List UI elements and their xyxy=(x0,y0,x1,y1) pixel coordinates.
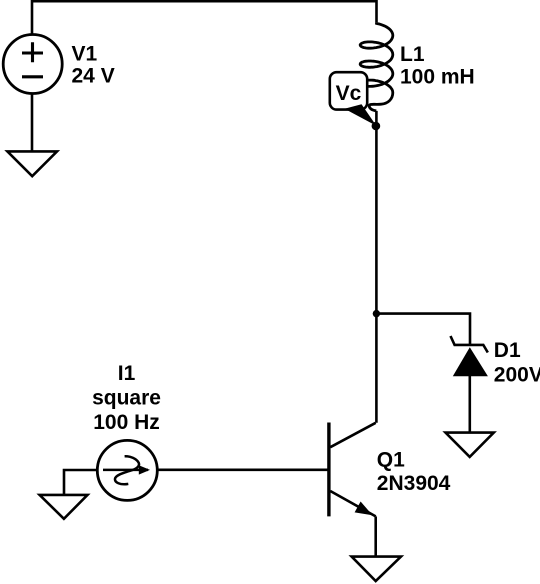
D1 anode triangle xyxy=(453,347,488,376)
wire L1 to node A xyxy=(375,111,378,314)
svg-text:200V: 200V xyxy=(494,363,540,386)
probe Vc pointer tail xyxy=(345,104,377,126)
label L1 value xyxy=(400,43,475,88)
svg-text:square: square xyxy=(92,387,161,410)
wire V1 to ground xyxy=(31,94,34,151)
wire node A to Q1 collector xyxy=(375,314,378,423)
I1 arrow shaft xyxy=(103,469,148,472)
Q1 emitter arrow xyxy=(355,502,373,516)
svg-text:2N3904: 2N3904 xyxy=(377,472,451,495)
ground (Q1 emitter) xyxy=(352,557,401,581)
transistor Q1 xyxy=(329,423,376,517)
wire top rail V1 to L1 xyxy=(32,1,377,34)
svg-text:Vc: Vc xyxy=(336,82,362,105)
I1 arrow head xyxy=(139,465,150,474)
label V1 value xyxy=(72,43,115,88)
wire I1 to Q1 base xyxy=(158,468,329,471)
label I1 value xyxy=(92,362,161,434)
Q1 emitter stroke xyxy=(330,491,375,516)
svg-text:Q1: Q1 xyxy=(377,449,405,472)
ground (D1) xyxy=(446,433,494,457)
I1 waveform squiggle xyxy=(115,456,139,484)
label D1 value xyxy=(494,339,540,386)
svg-text:24 V: 24 V xyxy=(72,65,115,88)
wire D1 to ground xyxy=(468,374,471,433)
probe Vc attachment dot xyxy=(372,122,381,131)
svg-text:I1: I1 xyxy=(118,362,136,385)
inductor L1 xyxy=(360,22,393,111)
current source I1 xyxy=(97,440,157,500)
label Q1 part number xyxy=(377,449,451,496)
ground (I1) xyxy=(40,495,88,519)
Q1 base bar xyxy=(327,423,330,517)
D1 cathode bar (zener) xyxy=(451,336,488,353)
svg-text:D1: D1 xyxy=(494,339,521,362)
wire I1 to ground xyxy=(64,470,97,495)
svg-text:100 mH: 100 mH xyxy=(400,65,475,88)
Q1 collector stroke xyxy=(330,423,375,447)
node A junction dot xyxy=(373,310,380,317)
ground (V1) xyxy=(7,151,57,176)
probe Vc callout box xyxy=(330,72,377,126)
svg-text:L1: L1 xyxy=(400,43,425,66)
svg-text:V1: V1 xyxy=(72,43,98,66)
voltage source V1 xyxy=(3,35,62,94)
V1 plus sign xyxy=(22,42,43,62)
zener diode D1 xyxy=(451,336,488,376)
wire node A to D1 xyxy=(376,314,470,345)
svg-text:100 Hz: 100 Hz xyxy=(93,411,160,434)
probe Vc text xyxy=(336,82,362,105)
V1 minus sign xyxy=(22,75,43,78)
wire Q1 emitter to ground xyxy=(374,516,377,556)
